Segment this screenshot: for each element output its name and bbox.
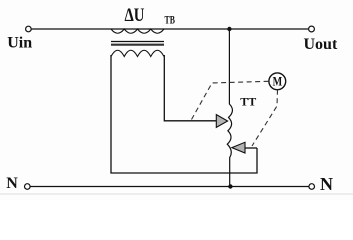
wire top (phase, Uin to Uout): [32, 28, 309, 30]
wiper 2 (sliding contact, points left): [232, 142, 245, 153]
wire TB primary right end down to wiper1 arm: [164, 55, 216, 121]
wire bottom (neutral): [30, 186, 308, 188]
faint bottom band: [0, 193, 353, 195]
svg-text:N: N: [6, 175, 18, 192]
svg-text:Uout: Uout: [304, 36, 338, 53]
autotransformer TT winding (vertical with wave): [227, 29, 232, 187]
node junction bottom (neutral tap): [228, 184, 232, 188]
motor M: [269, 73, 286, 90]
svg-text:TT: TT: [240, 95, 256, 109]
svg-text:M: M: [273, 75, 283, 89]
mechanical link dashed: wiper1 to M: [192, 81, 269, 119]
svg-text:N: N: [320, 174, 333, 194]
terminal Uin: [26, 26, 32, 32]
wiper 1 (sliding contact, points right): [216, 115, 227, 128]
wire TB primary left end down and across bottom to wiper2 riser: [111, 55, 257, 173]
svg-text:TB: TB: [165, 14, 176, 27]
node junction top (phase tap): [227, 27, 231, 31]
svg-text:ΔU: ΔU: [125, 4, 145, 25]
terminal N right: [309, 184, 315, 190]
transformer TB primary winding: [111, 50, 164, 56]
mechanical link dashed: M to wiper2: [252, 90, 278, 146]
terminal N left: [25, 184, 31, 190]
terminal Uout: [309, 26, 315, 32]
svg-text:Uin: Uin: [7, 35, 32, 52]
transformer TB core: [111, 41, 164, 43]
transformer TB secondary winding (series, on top wire): [111, 29, 164, 33]
wire wiper2 arm: [245, 147, 257, 149]
